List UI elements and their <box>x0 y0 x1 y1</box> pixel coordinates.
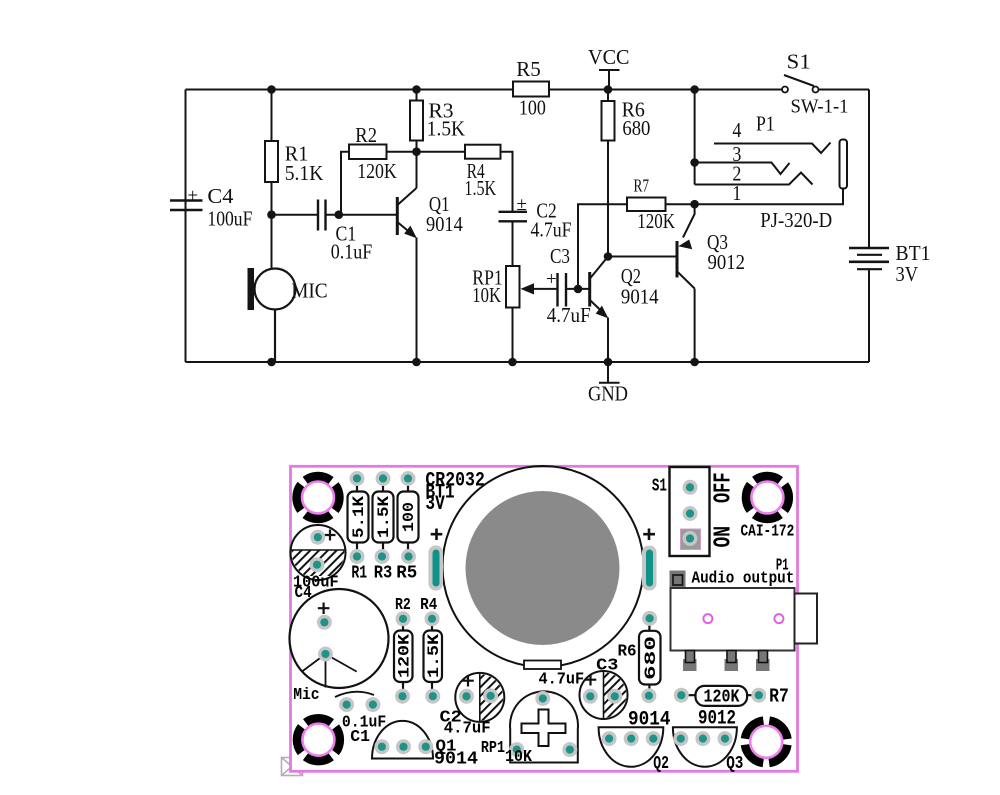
wire node-C1 <box>272 214 397 216</box>
ground GND <box>599 362 620 383</box>
svg-text:1.5K: 1.5K <box>464 176 496 200</box>
svg-text:0.1uF: 0.1uF <box>331 239 373 263</box>
svg-text:Q3: Q3 <box>726 754 743 774</box>
transistor Q2 footprint <box>599 727 664 767</box>
capacitor C2 footprint <box>455 673 504 722</box>
svg-text:R7: R7 <box>769 685 789 707</box>
svg-text:±: ± <box>517 194 527 215</box>
svg-text:9012: 9012 <box>708 250 746 274</box>
svg-text:100: 100 <box>519 95 546 119</box>
resistor R3 <box>410 90 423 189</box>
wire bottom rail <box>186 361 870 363</box>
mounting pad top-right <box>742 472 793 523</box>
R1 R3 R5 pads <box>350 471 365 486</box>
resistor R1 <box>265 90 278 269</box>
mounting pad bottom-left <box>293 714 344 765</box>
jack mounting tabs <box>683 651 770 672</box>
svg-text:100: 100 <box>400 502 418 532</box>
battery clip right <box>642 546 657 591</box>
resistor R2 footprint <box>394 625 413 690</box>
svg-text:C1: C1 <box>350 728 370 747</box>
connector P1 audio jack footprint <box>670 571 686 589</box>
corner fiducial square <box>282 758 303 776</box>
svg-text:1.5K: 1.5K <box>425 634 443 678</box>
resistor R7 <box>627 198 666 212</box>
resistor R6 footprint <box>639 625 661 690</box>
battery holder outline <box>443 466 644 667</box>
svg-text:R4: R4 <box>420 596 437 615</box>
battery BT1 <box>849 248 889 269</box>
svg-text:S1: S1 <box>652 476 667 496</box>
wire top rail <box>186 89 870 91</box>
connector P1 PJ-320-D <box>695 90 847 205</box>
battery holder bottom tab <box>524 661 561 670</box>
resistor R4 footprint <box>424 625 443 690</box>
pin 2 line <box>695 173 813 185</box>
PCB board outline <box>291 466 798 771</box>
microphone MIC <box>255 269 296 363</box>
svg-text:R6: R6 <box>618 643 637 662</box>
potentiometer RP1 <box>506 266 558 362</box>
svg-text:R1: R1 <box>351 563 367 583</box>
svg-text:1: 1 <box>732 181 741 205</box>
capacitor C4 <box>170 201 203 211</box>
svg-text:Q2: Q2 <box>653 754 669 774</box>
transistor Q3 footprint <box>673 727 737 767</box>
wire right vertical (battery branch) <box>868 90 870 363</box>
mounting pad top-left <box>292 472 343 523</box>
transistor Q3 <box>677 204 695 362</box>
svg-text:OFF: OFF <box>711 473 738 504</box>
resistor R5 <box>513 82 549 97</box>
svg-text:9014: 9014 <box>434 750 478 770</box>
wire C1-R2 riser <box>341 152 349 215</box>
capacitor C3 <box>558 273 567 307</box>
svg-text:3V: 3V <box>896 262 919 286</box>
svg-text:C3: C3 <box>596 657 618 676</box>
wire C3 node to R7 <box>578 204 627 289</box>
svg-text:4: 4 <box>732 118 741 142</box>
battery plus marks <box>431 529 655 541</box>
svg-text:R5: R5 <box>516 57 541 81</box>
battery CR2032 body <box>466 491 620 645</box>
transistor Q1 footprint <box>372 721 433 759</box>
potentiometer RP1 footprint <box>510 691 578 762</box>
C1 pads <box>339 697 354 712</box>
svg-text:C4: C4 <box>207 184 234 208</box>
microphone footprint <box>290 589 389 688</box>
svg-text:680: 680 <box>642 636 660 680</box>
svg-text:P1: P1 <box>756 112 775 136</box>
svg-text:120K: 120K <box>357 159 397 183</box>
svg-text:C3: C3 <box>550 244 570 268</box>
switch S1 footprint <box>670 467 710 556</box>
svg-text:120K: 120K <box>395 634 413 678</box>
svg-text:PJ-320-D: PJ-320-D <box>760 208 832 232</box>
capacitor C4 footprint <box>291 525 346 580</box>
svg-text:4.7uF: 4.7uF <box>531 218 572 242</box>
power VCC <box>599 70 620 90</box>
resistor R5 footprint <box>398 485 419 551</box>
pin 1 line <box>695 189 843 205</box>
svg-text:9014: 9014 <box>426 212 463 236</box>
svg-text:R5: R5 <box>396 563 417 583</box>
svg-text:R2: R2 <box>395 596 411 615</box>
C4 pads <box>310 530 325 545</box>
svg-text:R2: R2 <box>355 123 377 147</box>
svg-text:5.1K: 5.1K <box>350 496 368 538</box>
svg-text:MIC: MIC <box>291 278 327 302</box>
jack sleeve bar <box>840 140 848 189</box>
wire VCC branch down <box>694 90 696 185</box>
pin 4 line <box>714 143 831 154</box>
pin 3 line <box>695 163 790 175</box>
svg-text:10K: 10K <box>472 283 501 307</box>
svg-text:120K: 120K <box>637 209 675 233</box>
transistor Q2 <box>590 257 608 363</box>
resistor R4 <box>417 151 466 153</box>
svg-text:9012: 9012 <box>698 708 736 731</box>
wire left vertical <box>185 90 187 363</box>
svg-text:ON: ON <box>711 526 738 548</box>
svg-text:Audio output: Audio output <box>692 569 795 588</box>
svg-text:3V: 3V <box>425 493 444 516</box>
switch S1 <box>782 87 819 93</box>
wire Q2 collector to Q3 base <box>608 256 677 258</box>
svg-text:680: 680 <box>622 116 650 140</box>
svg-text:5.1K: 5.1K <box>285 161 324 185</box>
svg-text:10K: 10K <box>505 748 533 767</box>
svg-text:4.7uF: 4.7uF <box>547 303 591 327</box>
svg-text:VCC: VCC <box>588 45 630 69</box>
svg-text:RP1: RP1 <box>481 739 505 758</box>
capacitor C1 footprint arc <box>335 692 374 697</box>
capacitor C2 <box>499 212 528 222</box>
resistor R1 footprint <box>348 485 369 551</box>
svg-text:9014: 9014 <box>621 284 659 308</box>
svg-text:100uF: 100uF <box>207 206 252 230</box>
junction dots <box>267 85 699 366</box>
svg-text:1.5K: 1.5K <box>375 496 393 538</box>
svg-text:9014: 9014 <box>628 709 671 732</box>
capacitor C1 <box>318 200 326 231</box>
svg-text:±: ± <box>188 186 198 207</box>
svg-text:SW-1-1: SW-1-1 <box>791 96 849 118</box>
resistor R2 <box>349 145 387 160</box>
capacitor C3 footprint <box>580 671 628 719</box>
battery clip left <box>429 546 444 591</box>
svg-text:GND: GND <box>588 381 628 405</box>
RP1 adjust cross <box>522 710 566 747</box>
svg-text:4.7uF: 4.7uF <box>444 720 491 739</box>
microphone pads <box>317 615 332 630</box>
resistor R7 footprint <box>688 686 753 706</box>
mounting pad bottom-right <box>741 716 792 767</box>
svg-text:1.5K: 1.5K <box>427 117 465 141</box>
resistor R3 footprint <box>373 485 394 551</box>
svg-text:R3: R3 <box>374 563 393 583</box>
svg-text:S1: S1 <box>787 49 811 73</box>
svg-text:+: + <box>546 269 557 290</box>
transistor Q1 <box>397 188 416 362</box>
svg-text:CAI-172: CAI-172 <box>741 523 795 542</box>
svg-text:120K: 120K <box>704 688 740 708</box>
resistor R6 <box>602 90 615 257</box>
svg-text:R7: R7 <box>634 175 650 195</box>
svg-text:4.7uF: 4.7uF <box>539 671 585 690</box>
svg-text:Mic: Mic <box>293 686 319 705</box>
